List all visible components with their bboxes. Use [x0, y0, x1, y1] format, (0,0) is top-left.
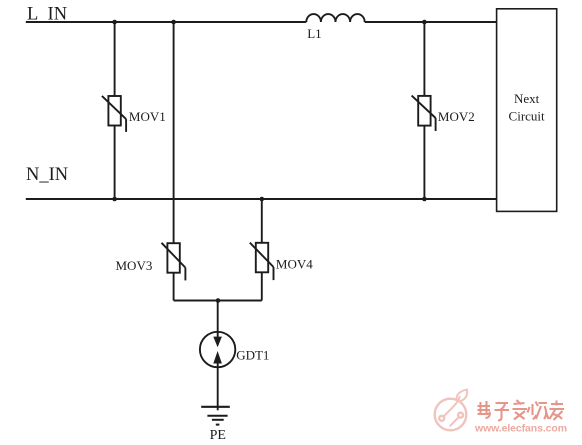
- junction dot join / GDT: [216, 298, 221, 303]
- wire MOV2 branch bottom: [423, 126, 425, 199]
- varistor MOV2: [412, 96, 475, 131]
- wire join to GDT1: [217, 301, 219, 338]
- gas discharge tube GDT1: [200, 332, 270, 367]
- varistor MOV3: [116, 243, 186, 281]
- svg-text:MOV1: MOV1: [129, 109, 166, 124]
- wire N_IN: [26, 198, 497, 200]
- wire MOV1 branch top: [114, 22, 116, 96]
- svg-text:N_IN: N_IN: [26, 165, 68, 185]
- varistor MOV1: [102, 96, 166, 132]
- wire branch to MOV3: [173, 22, 175, 243]
- inductor L1: [306, 14, 364, 41]
- ground PE: [201, 407, 230, 443]
- node N_IN label: [26, 165, 68, 185]
- node L_IN label: [27, 5, 67, 25]
- varistor MOV4: [250, 243, 313, 281]
- block Next Circuit: [497, 9, 557, 212]
- junction dot L_IN / MOV3 branch: [171, 20, 176, 25]
- junction dot N_IN / MOV2: [422, 197, 427, 202]
- wire MOV4 bottom: [261, 272, 263, 300]
- svg-text:MOV4: MOV4: [276, 256, 313, 271]
- wire GDT1 to ground: [217, 362, 219, 410]
- wire branch to MOV4: [261, 199, 263, 243]
- svg-text:PE: PE: [210, 428, 226, 443]
- watermark text www.elecfans.com: [474, 423, 567, 435]
- wire MOV2 branch top: [423, 22, 425, 96]
- svg-text:GDT1: GDT1: [236, 347, 269, 362]
- watermark logo circle: [435, 390, 468, 431]
- wire MOV3-MOV4 join: [174, 300, 262, 302]
- svg-text:Next: Next: [514, 91, 540, 106]
- svg-text:Circuit: Circuit: [509, 109, 545, 124]
- wire MOV3 bottom: [173, 273, 175, 301]
- svg-text:MOV3: MOV3: [116, 258, 153, 273]
- wire L_IN: [26, 21, 497, 23]
- junction dot N_IN / MOV4 branch: [260, 197, 265, 202]
- junction dot L_IN / MOV2: [422, 20, 427, 25]
- svg-text:MOV2: MOV2: [438, 109, 475, 124]
- junction dot N_IN / MOV1: [112, 197, 117, 202]
- watermark text 电子发烧友: [478, 400, 565, 421]
- wire MOV1 branch bottom: [114, 126, 116, 200]
- junction dot L_IN / MOV1: [112, 20, 117, 25]
- svg-text:www.elecfans.com: www.elecfans.com: [474, 423, 567, 435]
- svg-text:L1: L1: [307, 26, 321, 41]
